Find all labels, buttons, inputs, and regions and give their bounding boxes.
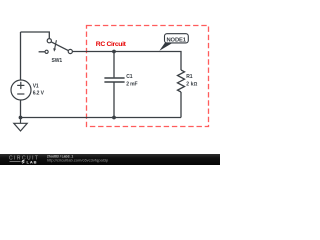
ground — [14, 118, 27, 132]
wire V1 bottom to ground rail — [20, 100, 22, 118]
wire C1 top lead — [113, 52, 115, 78]
wire R1 bottom lead — [180, 92, 182, 118]
svg-text:6.2 V: 6.2 V — [33, 90, 45, 96]
junction node SW-C1-R1 — [112, 50, 116, 54]
voltage source V1 — [11, 80, 31, 100]
wire bottom rail — [21, 117, 182, 119]
svg-text:http://circuitlab.com/c6vc3vfq: http://circuitlab.com/c6vc3vfqpat3p — [47, 158, 109, 163]
wire C1 bottom lead — [113, 83, 115, 118]
svg-text:V1: V1 — [33, 83, 39, 89]
svg-text:RC Circuit: RC Circuit — [96, 41, 127, 48]
junction C1-bottom rail — [112, 116, 116, 120]
capacitor C1 — [104, 78, 124, 82]
wire left vertical into V1 top — [20, 32, 22, 80]
svg-text:R1: R1 — [186, 74, 193, 80]
svg-text:LAB: LAB — [27, 159, 38, 164]
svg-text:SW1: SW1 — [52, 58, 63, 64]
svg-text:2 mF: 2 mF — [126, 81, 137, 87]
wire top-left horizontal V1 to SW1 — [21, 32, 50, 39]
node flag NODE1 — [159, 43, 173, 51]
wire SW1 to R1 top with corner — [73, 52, 181, 71]
footer bar — [0, 154, 220, 165]
junction V1-ground — [19, 116, 23, 120]
resistor R1 — [178, 70, 185, 92]
svg-text:C1: C1 — [126, 74, 133, 80]
annotation box RC Circuit — [87, 26, 209, 127]
svg-text:NODE1: NODE1 — [166, 37, 186, 43]
svg-text:2 kΩ: 2 kΩ — [186, 81, 197, 87]
switch SW1 — [39, 39, 73, 54]
